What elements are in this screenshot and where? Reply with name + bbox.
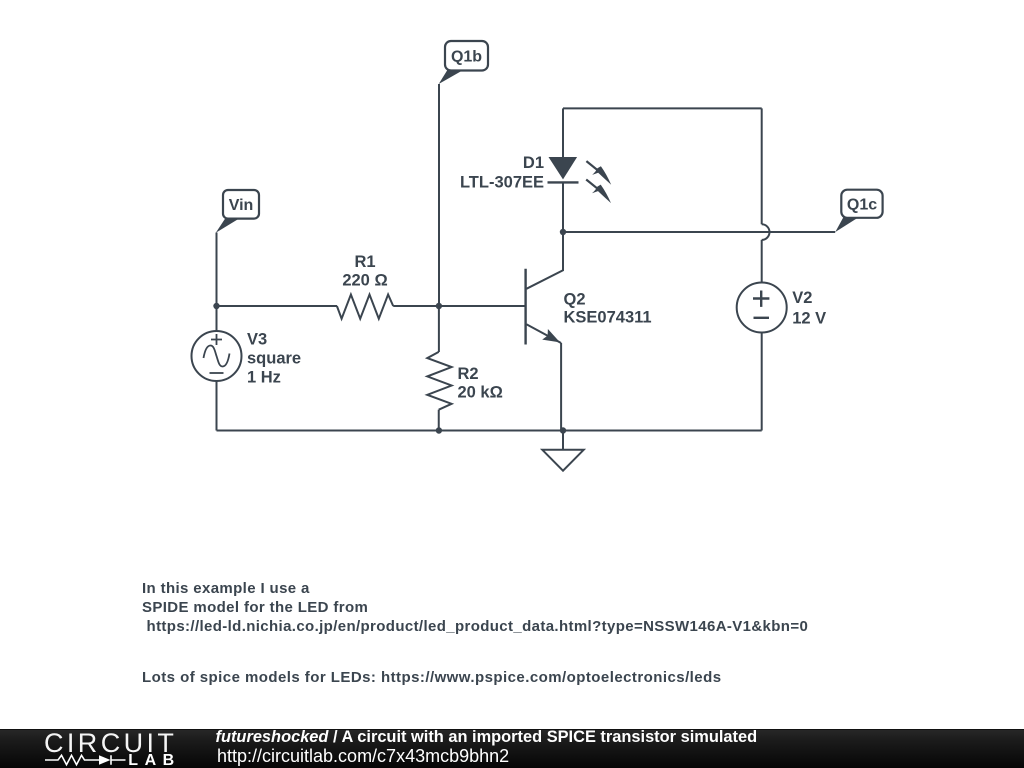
svg-text:D1: D1 [523,154,544,172]
wire R1 to Q2 base [393,305,525,307]
svg-text:12 V: 12 V [792,309,826,327]
node collector [560,229,566,235]
CircuitLab logo resistor-diode symbol [44,753,134,767]
svg-text:R1: R1 [354,253,375,271]
node R1/R2/base [436,303,442,309]
svg-text:Q2: Q2 [564,291,586,309]
wire top rail [563,107,762,109]
wire R2 bottom to bottom rail [438,410,440,431]
node ground junction [560,427,566,433]
voltage source V2 (12 V) [737,283,787,333]
svg-text:KSE074311: KSE074311 [564,309,652,327]
svg-text:20 kΩ: 20 kΩ [458,383,503,401]
node R2 bottom [436,427,442,433]
footer title line [216,729,758,746]
svg-text:LTL-307EE: LTL-307EE [460,174,544,192]
ground [542,431,583,471]
transistor Q2 [526,232,563,431]
flag Vin [216,190,259,233]
flag Q1b [439,41,488,84]
svg-text:Vin: Vin [229,197,254,214]
svg-text:R2: R2 [458,365,479,383]
wire V2 top vertical with hop over collector wire [761,108,763,224]
wire node to V3 top [216,306,218,331]
wire from Vin flag down to node at R1 input [216,233,218,307]
footer url line [217,747,509,766]
svg-text:V2: V2 [792,289,812,307]
resistor R2 [427,352,451,410]
CircuitLab logo LAB text [128,753,180,768]
svg-text:V3: V3 [247,331,267,349]
resistor R1 [337,295,393,319]
wire node to R2 top [438,306,440,352]
footer bar [0,729,1024,768]
svg-text:square: square [247,350,301,368]
LED D1 [548,157,612,203]
svg-text:220 Ω: 220 Ω [342,271,387,289]
wire collector node to Q1c flag [563,231,835,233]
voltage source V3 (square 1 Hz) [192,331,242,381]
wire Q1b flag down to node [438,84,440,306]
flag Q1c [835,190,882,232]
annotation notes paragraph 2 [142,668,722,687]
svg-text:1 Hz: 1 Hz [247,369,281,387]
CircuitLab logo text [44,730,177,757]
wire bottom rail [217,430,762,432]
wire top rail to LED anode [562,108,564,157]
svg-text:Q1c: Q1c [847,197,877,214]
annotation notes paragraph 1 [142,579,808,636]
wire R1 input [217,305,338,307]
wire V3 bottom to bottom rail [216,381,218,431]
node Vin junction [213,303,219,309]
wire V2 bottom [761,333,763,431]
svg-text:Q1b: Q1b [451,49,482,66]
wire LED cathode to collector node [562,182,564,232]
